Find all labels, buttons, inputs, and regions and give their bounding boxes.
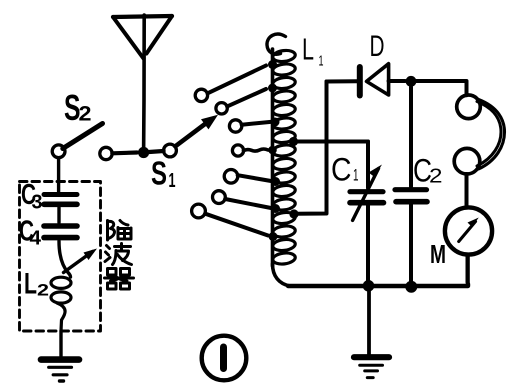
svg-text:S: S — [151, 155, 167, 192]
svg-text:2: 2 — [37, 281, 49, 300]
svg-text:D: D — [370, 30, 385, 63]
svg-text:2: 2 — [79, 103, 92, 126]
svg-text:2: 2 — [429, 166, 443, 188]
svg-text:M: M — [430, 239, 446, 269]
svg-text:3: 3 — [32, 192, 43, 214]
svg-text:1: 1 — [169, 170, 176, 192]
svg-text:L: L — [302, 32, 314, 67]
svg-text:C: C — [331, 151, 352, 187]
svg-text:L: L — [24, 268, 37, 301]
svg-text:1: 1 — [319, 53, 324, 70]
svg-text:1: 1 — [353, 166, 359, 185]
svg-text:4: 4 — [30, 228, 42, 250]
